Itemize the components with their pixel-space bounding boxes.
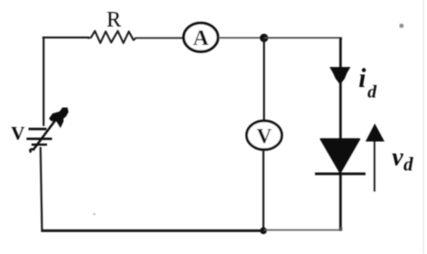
- wire voltmeter branch (top): [263, 38, 265, 121]
- ammeter A1 circle: [184, 23, 218, 52]
- svg-text:V: V: [11, 124, 25, 145]
- voltmeter V1 circle: [247, 121, 282, 150]
- source VS variable arrowhead: [49, 108, 69, 129]
- svg-text:d: d: [404, 155, 414, 176]
- arrow vd head: [366, 124, 385, 142]
- node junction (bottom): [260, 227, 267, 234]
- svg-text:i: i: [359, 63, 367, 93]
- wire left vertical (top segment): [43, 38, 45, 127]
- svg-text:A: A: [193, 25, 209, 50]
- wire left vertical (bottom segment): [41, 147, 43, 231]
- wire right vertical (top, through current arrow): [339, 38, 342, 140]
- node junction (top): [260, 34, 268, 42]
- resistor R: [89, 31, 136, 43]
- svg-text:R: R: [107, 6, 122, 31]
- wire voltmeter branch (bottom): [262, 150, 264, 232]
- wire resistor to ammeter: [136, 37, 184, 39]
- svg-text:v: v: [392, 144, 404, 171]
- source VS plate bar 2: [27, 138, 53, 140]
- wire bottom (right gray segment): [264, 227, 342, 230]
- svg-text:d: d: [368, 82, 378, 102]
- scan artifact: faint page edge line: [422, 0, 424, 254]
- wire ammeter to node: [219, 37, 265, 39]
- scan artifact: gray smudge top right: [400, 24, 404, 28]
- diode D1 triangle: [321, 139, 360, 173]
- scan artifact: speck bottom left: [93, 213, 96, 215]
- current direction arrow id: [330, 67, 351, 85]
- source VS plate bar 1: [29, 128, 47, 130]
- diode D1 cathode bar: [315, 173, 366, 176]
- source VS plate bar 3: [32, 144, 48, 146]
- source VS variable arrow shaft: [30, 118, 57, 153]
- wire node to top-right corner: [264, 38, 341, 40]
- wire bottom (left dark segment): [41, 229, 264, 232]
- wire right vertical (below diode): [339, 174, 342, 231]
- wire top-left horizontal: [42, 37, 89, 39]
- svg-text:V: V: [257, 124, 272, 148]
- arrow vd shaft: [374, 141, 376, 192]
